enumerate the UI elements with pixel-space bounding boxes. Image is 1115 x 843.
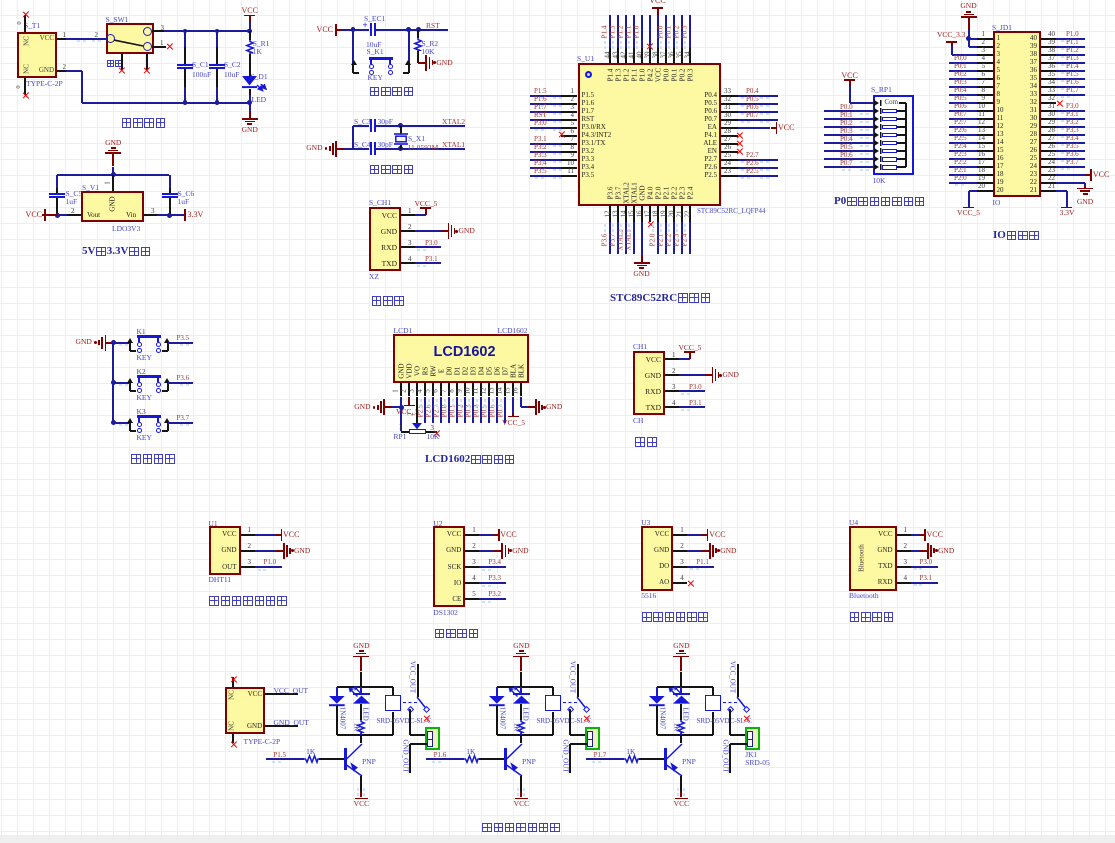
wire highlight — [860, 121, 863, 123]
GND text — [350, 642, 372, 650]
wire highlight — [683, 793, 685, 796]
wire highlight — [77, 40, 80, 42]
relay contact dashed link — [723, 702, 737, 703]
S_JD1 right pin 35 stub — [1041, 78, 1057, 80]
ground bar — [105, 152, 121, 154]
capacitor S_C2 plate — [209, 64, 225, 66]
wire top pin 36 — [673, 15, 675, 48]
wire highlight — [687, 409, 690, 411]
net label P0.5 — [954, 95, 967, 102]
wire pin4 — [679, 406, 705, 408]
terminal block JK body — [745, 727, 760, 750]
LCD pin 11 stub — [480, 383, 482, 397]
pin number 37 — [660, 51, 667, 58]
ground bar — [359, 650, 364, 652]
wire highlight — [684, 41, 686, 44]
wire pin3 — [157, 214, 170, 216]
ground bar — [712, 367, 714, 383]
wire highlight — [541, 113, 544, 115]
wire highlight — [866, 137, 869, 139]
ground bar — [637, 265, 647, 267]
wire highlight — [592, 761, 595, 763]
net label P3.1 — [534, 136, 547, 143]
LCD pin 10 stub — [472, 383, 474, 397]
inside pin number 11 — [997, 115, 1004, 122]
capacitor S_C6 plate — [162, 193, 178, 195]
U1 ref label — [209, 520, 218, 528]
wire to C6 — [169, 175, 171, 188]
GND text — [102, 139, 124, 147]
S_JD1 left pin 14 stub — [977, 142, 993, 144]
ground bar — [961, 16, 977, 18]
S_U1 top pin 36 stub — [673, 48, 675, 63]
no-connect X on NO contact — [423, 715, 430, 722]
LCD pin 9 stub — [464, 383, 466, 397]
junction key K3 — [111, 420, 116, 425]
wire highlight — [488, 569, 491, 571]
VCC bar — [355, 798, 369, 800]
pin name P0.0 — [663, 69, 670, 82]
ground bar — [535, 399, 537, 415]
junction XTAL1 — [398, 146, 403, 151]
wire to RST — [418, 29, 448, 31]
push button K2 left bracket — [129, 383, 131, 391]
wire to C1 — [184, 31, 186, 47]
net label P0.6 — [954, 103, 967, 110]
wire to XTAL1 — [401, 148, 466, 150]
VCC stem — [360, 791, 362, 797]
resistor R2 top lead — [417, 30, 419, 39]
caption for U4 — [849, 609, 894, 625]
wire LCD pin 10 — [472, 397, 474, 424]
S_U1 bottom pin 16 stub — [641, 206, 643, 222]
S_JD1 right pin 32 stub — [1041, 102, 1057, 104]
S_U1 left pin 5 stub — [561, 127, 578, 129]
net label P2.2 — [954, 159, 967, 166]
wire highlight — [620, 229, 622, 232]
resistor to common rail — [897, 142, 907, 144]
S_U1 bottom pin 21 stub — [681, 206, 683, 222]
wire LCD pin 12 — [488, 397, 490, 424]
wire pin2 — [969, 46, 978, 48]
ground bar — [451, 225, 453, 237]
pin name P3.5 — [582, 172, 595, 179]
S_RP1 resistor element — [882, 133, 897, 138]
inside pin number 31 — [1022, 107, 1037, 114]
S_RP1 pin 2 glyph — [874, 108, 883, 114]
wire top pin 34 — [689, 15, 691, 48]
S_CH1 pin 3 stub — [401, 246, 415, 248]
pin number 4 — [972, 55, 985, 62]
wire relay common up (VCC_OUT) — [577, 664, 579, 697]
pin name TXD — [868, 563, 893, 570]
wire highlight — [559, 121, 562, 123]
wire highlight — [961, 72, 964, 74]
inside pin number 3 — [997, 51, 1001, 58]
net label P0.4 — [473, 404, 480, 417]
wire highlight — [559, 97, 562, 99]
wire highlight — [125, 424, 128, 426]
wire resistor to base — [479, 758, 504, 760]
inside pin number 38 — [1022, 51, 1037, 58]
relay value SRD-05VDC-SL-C — [537, 718, 592, 725]
LCD pin 4 stub — [424, 383, 426, 397]
net label P2.5 — [746, 168, 759, 175]
wire highlight — [747, 121, 750, 123]
K2 value KEY — [137, 394, 152, 402]
inside pin number 5 — [997, 67, 1001, 74]
pin name P0.4 — [690, 92, 717, 99]
inside pin number 34 — [1022, 83, 1037, 90]
wire highlight — [660, 41, 662, 44]
net label RST — [426, 22, 440, 30]
S_JD1 left pin 9 stub — [977, 102, 993, 104]
pin number 1 — [672, 352, 676, 359]
wire highlight — [1061, 120, 1064, 122]
wire highlight — [628, 46, 630, 49]
wire highlight — [363, 793, 365, 796]
wire highlight — [660, 229, 662, 232]
relay coil bottom rail — [497, 734, 553, 736]
S_R2 ref label — [422, 40, 439, 48]
wire highlight — [476, 399, 478, 402]
pin number 8 — [972, 87, 985, 94]
net label P3.2 — [534, 144, 547, 151]
wire highlight — [866, 169, 869, 171]
no-connect X pin 32 — [1056, 100, 1063, 107]
pin number 4 — [680, 575, 684, 582]
net label P0.2 — [954, 71, 967, 78]
push button K1 left bracket — [129, 343, 131, 351]
GND text — [510, 642, 532, 650]
bar — [404, 405, 415, 407]
S_C1 value 100nF — [192, 71, 211, 79]
net label GND_OUT (rotated) — [721, 739, 728, 772]
ground bar — [105, 335, 107, 351]
net label P1.7 — [594, 752, 607, 759]
wire pin1 down to RP1 pot — [400, 407, 402, 431]
capacitor S_C4 plate — [374, 142, 376, 156]
S_U1 right pin 23 stub — [721, 175, 738, 177]
junction pins 1-2 — [966, 36, 971, 41]
ground stem — [418, 62, 425, 64]
net label P1.7 — [1066, 87, 1079, 94]
capacitor S_C6 plate — [162, 196, 178, 198]
ground bar — [425, 55, 427, 71]
pin number 3 — [472, 559, 476, 566]
pin name VCC — [212, 531, 237, 538]
S_U1 top pin 35 stub — [681, 48, 683, 63]
pin number 28 — [1043, 127, 1055, 134]
terminal divider — [427, 739, 433, 741]
junction LDO top — [111, 172, 116, 177]
push button K1 right bracket — [162, 350, 168, 352]
wire highlight — [541, 129, 544, 131]
C6 bottom lead — [169, 198, 171, 215]
pin number 1 — [972, 31, 985, 38]
pin number 14 — [620, 211, 627, 218]
push button K3 contact — [137, 422, 142, 427]
no-connect X on S_SW1 pin 1 — [166, 43, 173, 50]
wire key K1 out — [168, 342, 193, 344]
text — [393, 407, 425, 409]
U1 pin 2 stub — [241, 550, 255, 552]
wire highlight — [553, 121, 556, 123]
pin number 1 — [105, 181, 112, 185]
wire top pin 35 — [681, 15, 683, 48]
S_RP1 pin 8 glyph — [874, 156, 883, 162]
pin name NC — [228, 721, 235, 731]
wire highlight — [684, 224, 686, 227]
net label VCC_OUT (rotated) — [569, 660, 576, 692]
U2 pin 3 stub — [465, 566, 479, 568]
wire highlight — [961, 128, 964, 130]
wire highlight — [535, 113, 538, 115]
wire left pin 3 — [530, 111, 561, 113]
wire highlight — [612, 46, 614, 49]
S_JD1 left pin 6 stub — [977, 78, 993, 80]
push button K3 pin arrow — [127, 418, 133, 424]
S_JD1 left pin 10 stub — [977, 110, 993, 112]
wire highlight — [523, 793, 525, 796]
S_JD1 left pin 18 stub — [977, 174, 993, 176]
wire highlight — [180, 344, 183, 346]
wire highlight — [417, 249, 420, 251]
pin number 4 — [417, 389, 424, 393]
resistor to common rail — [897, 118, 907, 120]
wire bottom pin 21 — [681, 222, 683, 254]
VCC_5 stem — [689, 351, 691, 359]
wire GND pin 16 — [641, 222, 643, 256]
LCD1 ref label — [394, 327, 413, 335]
wire highlight — [559, 113, 562, 115]
U4 pin 2 stub — [897, 550, 911, 552]
net label P0.2 — [840, 120, 853, 127]
wire right pin 34 — [1056, 86, 1085, 88]
wire highlight — [500, 399, 502, 402]
wire highlight — [636, 46, 638, 49]
S_JD1 left pin 8 stub — [977, 94, 993, 96]
wire highlight — [553, 145, 556, 147]
wire relay common up (VCC_OUT) — [737, 664, 739, 697]
net label P0.5 — [481, 404, 488, 417]
S_JD1 left pin 1 stub — [977, 38, 993, 40]
GND text — [436, 59, 452, 67]
LED (relay P1.5) — [353, 693, 370, 704]
S_RP1 pin 9 glyph — [874, 164, 883, 170]
LED top lead — [520, 687, 522, 693]
net label P1.6 — [434, 752, 447, 759]
S_T1 VCC pin stub — [57, 38, 66, 40]
U4 pin 3 stub — [897, 566, 911, 568]
S_JD1 right pin 30 stub — [1041, 118, 1057, 120]
push button S_K1 stem — [370, 60, 372, 64]
pin number 7 — [441, 389, 448, 393]
RP1 ref label — [394, 433, 407, 441]
pin number 7 — [972, 79, 985, 86]
wire highlight — [684, 229, 686, 232]
S_T1 GND pin stub — [57, 70, 66, 72]
VCC bar — [498, 529, 500, 541]
push button K3 contact — [137, 428, 142, 433]
wire S_T1 GND — [66, 70, 82, 72]
PNP base bar — [664, 748, 667, 770]
LCD pin 3 stub — [416, 383, 418, 397]
wire right pin 40 — [1056, 38, 1085, 40]
wire highlight — [541, 145, 544, 147]
VCC bar — [281, 529, 283, 541]
pin number 20 — [972, 183, 985, 190]
VCC stem — [702, 534, 707, 536]
wire highlight — [866, 129, 869, 131]
wire LCD pin 5 — [432, 397, 434, 424]
S_U1 footprint label — [697, 208, 765, 215]
wire left pin 11 — [949, 118, 978, 120]
S_D1 ref label — [251, 73, 268, 81]
wire highlight — [452, 399, 454, 402]
pin number 14 — [497, 387, 504, 394]
pin number 3 — [561, 104, 574, 111]
wire to C5 — [56, 175, 58, 188]
pin name P1.3 — [615, 69, 622, 82]
S_SW1 pin number 2 — [95, 32, 99, 39]
pin number 3 — [151, 208, 155, 215]
push button K1 pin arrow — [127, 338, 133, 344]
push button K3 stem — [157, 418, 159, 422]
pin number 39 — [644, 51, 651, 58]
VCC text — [300, 26, 333, 34]
net label P2.6 — [425, 404, 432, 417]
wire pin 22 — [1056, 182, 1085, 184]
inside pin number 40 — [1022, 35, 1037, 42]
1N4007 value label — [658, 707, 665, 730]
pin name P4.2 — [647, 69, 654, 82]
S_U1 left pin 2 stub — [561, 103, 578, 105]
push button K3 stem — [138, 418, 140, 422]
wire pin P1.0 — [255, 566, 282, 568]
pin name GND — [644, 547, 669, 554]
pin name GND — [372, 228, 397, 236]
inside pin number 39 — [1022, 43, 1037, 50]
ground bar — [383, 399, 385, 415]
LCD pin 6 stub — [440, 383, 442, 397]
pin name CE — [436, 596, 461, 603]
pin number 41 — [628, 51, 635, 58]
wire right pin 31 — [738, 111, 778, 113]
wire left pin 12 — [949, 126, 978, 128]
pot right lead — [426, 431, 437, 433]
caption 晶振电路 (crystal circuit) — [369, 161, 414, 177]
ground bar — [639, 267, 644, 269]
VCC_3.3 stem — [951, 42, 953, 46]
wire highlight — [1061, 56, 1064, 58]
capacitor C2 bottom lead — [216, 69, 218, 87]
ground bar — [516, 653, 526, 655]
wire gnd to C4 — [344, 148, 369, 150]
IC S_U1 ref label — [577, 55, 594, 63]
LCD pin name D4 — [479, 367, 486, 376]
net label P3.7 — [609, 234, 616, 247]
push button S_K1 contact — [369, 70, 374, 75]
wire highlight — [741, 113, 744, 115]
net label P0.7 — [840, 160, 853, 167]
net label P2.0 — [649, 234, 656, 247]
junction on GND rail — [247, 100, 252, 105]
top pin — [232, 677, 234, 688]
S_CH1 body — [369, 207, 401, 271]
wire highlight — [500, 404, 502, 407]
net label P1.5 — [534, 88, 547, 95]
wire right pin 30 — [1056, 118, 1085, 120]
pin number 1 — [680, 527, 684, 534]
ground stem — [1084, 186, 1086, 188]
wire highlight — [955, 80, 958, 82]
wire highlight — [620, 46, 622, 49]
VCC_5 text — [679, 344, 702, 352]
ground bar — [245, 121, 255, 123]
wire left pin 7 — [949, 86, 978, 88]
caption for U3 — [641, 609, 709, 625]
resistor 1K (relay P1.7) — [676, 720, 686, 734]
ground bar — [289, 548, 291, 554]
ground bar — [247, 123, 252, 125]
collector wire to coil rail — [360, 735, 362, 743]
ground bar — [673, 656, 689, 658]
wire right pin 24 — [738, 167, 778, 169]
wire RP1 row 9 — [824, 166, 873, 168]
wire pin P1.1 — [687, 566, 714, 568]
wire left pin 17 — [949, 166, 978, 168]
wire highlight — [848, 145, 851, 147]
VCC bar — [515, 798, 529, 800]
U2 pin 4 stub — [465, 582, 479, 584]
net label P2.7 — [746, 152, 759, 159]
net label P3.5 — [534, 168, 547, 175]
pin name GND — [247, 723, 262, 730]
capacitor S_C5 plate — [49, 196, 65, 198]
wire to terminal pin 1 — [410, 734, 427, 736]
LCD pin 13 stub — [496, 383, 498, 397]
wire highlight — [1061, 40, 1064, 42]
wire highlight — [914, 584, 917, 586]
net label P1.1 — [696, 559, 709, 566]
right rail upper — [712, 687, 714, 695]
net label P2.1 — [657, 234, 664, 247]
wire highlight — [766, 113, 769, 115]
net label GND_OUT — [274, 719, 309, 727]
ground bar — [927, 543, 929, 559]
S_C4 value 30pF — [378, 141, 393, 149]
net label P1.3 — [1066, 55, 1079, 62]
wire highlight — [690, 568, 693, 570]
wire highlight — [652, 224, 654, 227]
wire highlight — [180, 384, 183, 386]
inside pin number 4 — [997, 59, 1001, 66]
wire highlight — [741, 177, 744, 179]
wire right pin 27 — [1056, 142, 1085, 144]
pin number 39 — [1043, 39, 1055, 46]
wire left pin 14 — [949, 142, 978, 144]
wire highlight — [676, 46, 678, 49]
ground bar — [541, 405, 543, 411]
push button S_K1 pin arrow — [405, 60, 411, 66]
wire bottom pin 12 — [609, 222, 611, 254]
S_JD1 right pin 27 stub — [1041, 142, 1057, 144]
relay coil bottom rail — [657, 734, 713, 736]
VCC text — [505, 800, 537, 808]
pin number 23 — [724, 168, 731, 175]
pin name EN — [690, 148, 717, 155]
